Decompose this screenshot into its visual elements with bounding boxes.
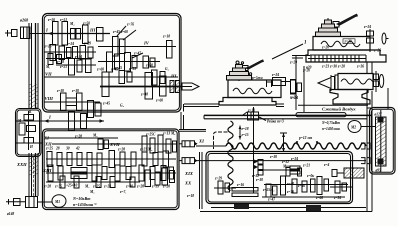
svg-text:p=12 мм: p=12 мм <box>298 136 313 140</box>
svg-text:z=25С: z=25С <box>145 133 156 137</box>
svg-text:z=24: z=24 <box>363 25 371 29</box>
svg-text:z=38: z=38 <box>56 60 64 64</box>
tailstock cone <box>318 75 338 91</box>
svg-text:ø95: ø95 <box>375 169 382 173</box>
svg-text:+25+10: +25+10 <box>66 184 77 188</box>
motor M1 <box>37 195 66 208</box>
cross slide screw box <box>271 73 297 100</box>
svg-text:n=1450мин: n=1450мин <box>322 127 340 131</box>
svg-text:z=30: z=30 <box>255 178 263 182</box>
shaft VII <box>44 66 178 85</box>
svg-text:z=16: z=16 <box>236 183 244 187</box>
svg-text:z=20: z=20 <box>344 40 352 44</box>
svg-text:М2: М2 <box>350 126 356 130</box>
svg-text:z=29: z=29 <box>214 177 222 181</box>
feed gear row A <box>45 147 176 168</box>
bed ledge <box>184 104 285 112</box>
svg-text:Сжатый Воздух: Сжатый Воздух <box>322 107 356 112</box>
feed box top extension <box>179 112 206 131</box>
svg-text:Н: Н <box>29 145 33 149</box>
saddle pinion vertical <box>292 55 310 110</box>
svg-text:М₆: М₆ <box>89 190 95 194</box>
svg-text:ø268: ø268 <box>19 18 28 23</box>
svg-text:М1: М1 <box>54 200 60 204</box>
svg-text:III: III <box>170 74 177 79</box>
turret head stack <box>316 18 341 37</box>
svg-text:ø148: ø148 <box>6 212 14 216</box>
svg-text:z=18: z=18 <box>241 127 249 131</box>
shaft XI feed <box>43 136 118 141</box>
support block right <box>306 205 321 211</box>
turret slide body <box>313 37 370 51</box>
vertical screw dimension <box>239 126 249 140</box>
svg-text:z=13 М₅: z=13 М₅ <box>162 132 176 136</box>
tailstock handwheel <box>374 71 384 92</box>
svg-text:XXII: XXII <box>16 162 27 167</box>
worm <box>332 168 364 200</box>
label p=12mm <box>296 136 318 145</box>
svg-text:z=23 М₅: z=23 М₅ <box>139 148 153 152</box>
cross slide body <box>228 76 281 98</box>
shaft V <box>98 52 160 73</box>
svg-text:z=51: z=51 <box>59 18 67 22</box>
apron top small gears <box>263 157 329 174</box>
svg-text:z=25: z=25 <box>45 147 53 151</box>
svg-text:М₁: М₁ <box>45 65 50 69</box>
gear z=56 <box>47 18 58 45</box>
svg-text:z=30: z=30 <box>56 89 64 93</box>
shaft I headstock <box>44 28 110 36</box>
svg-text:XIII: XIII <box>42 168 52 173</box>
feed gear row B <box>42 165 176 181</box>
motor M1 data <box>72 196 97 207</box>
svg-text:z=66: z=66 <box>297 184 305 188</box>
svg-text:z=15: z=15 <box>241 133 249 137</box>
cross slide base <box>219 98 276 106</box>
cross screw guard corner <box>214 132 228 149</box>
cross slide lever <box>243 59 265 70</box>
svg-text:z=0к: z=0к <box>306 174 314 178</box>
feed row B labels <box>43 184 170 189</box>
motor M2 <box>348 121 376 133</box>
tailstock body <box>338 74 373 90</box>
saddle pinion gears <box>290 66 310 112</box>
svg-text:VIII: VIII <box>45 96 54 101</box>
svg-text:z=7₁: z=7₁ <box>119 190 127 194</box>
svg-text:z=26: z=26 <box>289 96 297 100</box>
svg-text:z=45: z=45 <box>110 68 118 72</box>
svg-text:z=24: z=24 <box>271 73 279 77</box>
svg-text:z=20: z=20 <box>302 69 310 73</box>
svg-text:z=23 z=30 z=28: z=23 z=30 z=28 <box>321 65 345 69</box>
svg-text:z=76: z=76 <box>286 190 294 194</box>
svg-text:z=55М₉: z=55М₉ <box>262 188 275 192</box>
svg-text:42: 42 <box>75 147 80 151</box>
svg-text:z=30: z=30 <box>269 155 277 159</box>
feed lower gears <box>46 168 175 194</box>
turret slide handwheel unit <box>363 25 389 53</box>
svg-text:М₄: М₄ <box>69 22 75 26</box>
gear z=18 <box>162 35 176 59</box>
svg-text:G₄: G₄ <box>165 67 170 71</box>
svg-text:N=0,75кВт: N=0,75кВт <box>321 121 340 125</box>
svg-text:z=34: z=34 <box>333 196 341 200</box>
svg-text:z=36: z=36 <box>356 65 364 69</box>
air cylinder column <box>370 108 396 175</box>
vertical screw wavy <box>228 121 233 191</box>
labels XIX XX <box>184 171 194 198</box>
svg-text:ø127: ø127 <box>374 113 382 117</box>
svg-text:z=21: z=21 <box>59 65 67 69</box>
output coupling XX <box>179 158 198 164</box>
gear z=51 <box>59 18 68 45</box>
svg-text:N=10кВт: N=10кВт <box>72 196 90 201</box>
svg-text:z=28: z=28 <box>43 185 51 189</box>
rack labels <box>289 61 364 70</box>
rack pinion vertical <box>248 107 259 193</box>
svg-text:n=1450мин⁻¹: n=1450мин⁻¹ <box>73 202 97 207</box>
svg-text:XI: XI <box>198 139 204 144</box>
svg-text:z=28: z=28 <box>117 148 125 152</box>
shaft I lower (input) <box>41 112 104 131</box>
air pipe bar <box>296 113 346 117</box>
svg-text:Рейка m=3: Рейка m=3 <box>267 119 284 124</box>
svg-text:z=48: z=48 <box>140 93 148 97</box>
svg-text:z=60: z=60 <box>96 68 104 72</box>
turret saddle base <box>306 50 386 62</box>
rack teeth <box>308 56 366 63</box>
pulley D148 <box>6 197 38 208</box>
svg-text:z=56: z=56 <box>47 18 55 22</box>
support block left <box>234 204 249 210</box>
reversing box <box>16 109 42 157</box>
svg-text:p=5мм: p=5мм <box>251 76 263 80</box>
motor M2 data <box>321 121 340 131</box>
belt drive upper run <box>29 23 38 109</box>
leadscrew wavy <box>196 143 370 149</box>
svg-text:z=60: z=60 <box>155 99 163 103</box>
svg-text:z=18: z=18 <box>186 194 194 198</box>
pitch arrow <box>280 133 287 152</box>
shaft XII feed <box>44 132 177 154</box>
svg-text:I: I <box>48 115 51 120</box>
apron box <box>206 152 353 204</box>
svg-text:28: 28 <box>55 147 60 151</box>
svg-text:z=66: z=66 <box>315 196 323 200</box>
svg-text:z=24: z=24 <box>66 42 74 46</box>
svg-text:z=34: z=34 <box>74 55 82 59</box>
feed gearbox box <box>43 129 180 210</box>
svg-text:М₂: М₂ <box>92 134 98 138</box>
cross slide turret <box>227 61 252 81</box>
svg-text:1: 1 <box>304 40 307 46</box>
svg-text:30: 30 <box>65 147 70 151</box>
shaft II <box>44 42 97 61</box>
svg-text:z=76: z=76 <box>126 23 134 27</box>
svg-text:G₅: G₅ <box>120 104 125 108</box>
svg-text:М₇: М₇ <box>84 185 90 189</box>
svg-text:z=30: z=30 <box>71 89 79 93</box>
svg-text:К: К <box>28 110 32 114</box>
svg-text:z=32: z=32 <box>281 160 289 164</box>
reversing gears <box>16 111 42 150</box>
svg-text:XX: XX <box>184 181 192 186</box>
reversing labels <box>16 110 33 167</box>
shaft VIII <box>44 89 100 111</box>
svg-text:z=35: z=35 <box>128 67 136 71</box>
spindle nose arrow <box>182 83 199 90</box>
svg-text:XVII: XVII <box>109 142 120 147</box>
svg-text:I: I <box>45 28 48 33</box>
gear z=50 <box>82 22 90 44</box>
apron gear z=30 <box>251 155 290 182</box>
svg-text:z=4: z=4 <box>323 163 329 167</box>
apron left gears <box>214 177 258 197</box>
shaft II lower gears <box>45 54 92 70</box>
output coupling XI <box>179 139 204 147</box>
shaft III stub <box>89 28 103 42</box>
svg-text:z=24: z=24 <box>290 157 298 161</box>
svg-text:III: III <box>89 28 96 33</box>
svg-text:VII: VII <box>45 72 52 77</box>
label rack m=3 <box>259 117 284 124</box>
turret slide lever <box>333 14 358 27</box>
label z=10 rack <box>243 109 255 116</box>
bed right posts <box>367 62 388 212</box>
svg-text:z=21: z=21 <box>302 164 310 168</box>
gear pair z=48 z=60 lower <box>88 101 125 118</box>
svg-text:z=20: z=20 <box>321 46 329 50</box>
apron right gears <box>315 181 352 200</box>
spindle <box>96 68 182 103</box>
shaft VI mid <box>56 55 96 75</box>
svg-text:z=50: z=50 <box>82 22 90 26</box>
svg-text:z=47: z=47 <box>267 198 275 202</box>
svg-text:z=13: z=13 <box>44 45 52 49</box>
headstock box <box>43 14 182 113</box>
svg-text:IV: IV <box>143 41 150 46</box>
callout 1 <box>272 40 307 60</box>
belt drive lower run <box>29 153 38 196</box>
svg-text:z=45: z=45 <box>102 102 110 106</box>
bed top rails <box>204 115 372 118</box>
bracket post <box>200 152 203 209</box>
svg-text:XIX: XIX <box>184 171 194 176</box>
svg-text:z=40: z=40 <box>286 182 294 186</box>
svg-text:z=60: z=60 <box>145 64 153 68</box>
feed rod <box>196 158 370 164</box>
svg-text:z=28: z=28 <box>74 135 82 139</box>
tailstock base <box>298 90 370 106</box>
svg-text:z=29: z=29 <box>83 42 91 46</box>
svg-text:z=18: z=18 <box>162 35 170 39</box>
svg-text:z=28: z=28 <box>136 185 144 189</box>
apron center gears <box>262 168 348 202</box>
shaft IV <box>98 23 172 57</box>
bed bottom <box>200 208 372 212</box>
pulley D268 <box>5 27 47 39</box>
clutch M4 <box>69 22 81 39</box>
